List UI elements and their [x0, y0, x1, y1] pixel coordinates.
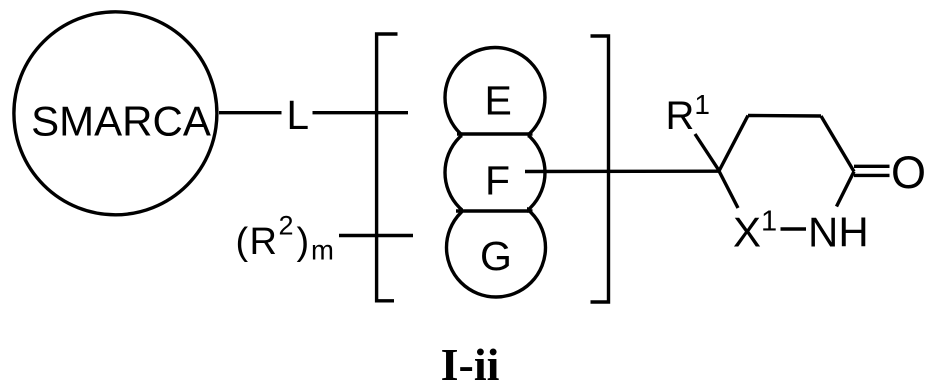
svg-text:E: E — [485, 78, 512, 124]
svg-text:(: ( — [236, 221, 249, 263]
svg-text:): ) — [297, 221, 310, 263]
svg-text:2: 2 — [279, 211, 294, 241]
svg-text:R: R — [250, 221, 277, 263]
svg-text:m: m — [311, 235, 334, 266]
svg-text:SMARCA: SMARCA — [31, 98, 211, 145]
svg-text:O: O — [891, 147, 926, 198]
svg-text:L: L — [287, 92, 310, 138]
svg-text:F: F — [485, 158, 510, 204]
svg-text:G: G — [480, 233, 512, 279]
svg-text:I-ii: I-ii — [441, 339, 500, 390]
svg-text:NH: NH — [808, 208, 869, 255]
